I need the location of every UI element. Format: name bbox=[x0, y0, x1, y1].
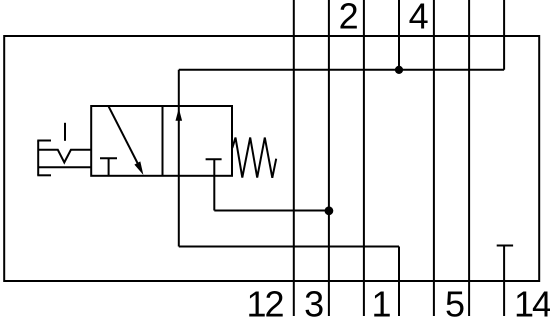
flow arrow head (up, right box) bbox=[176, 108, 183, 121]
plunger stem bbox=[64, 123, 66, 141]
svg-text:14: 14 bbox=[514, 283, 550, 318]
node A junction dot bbox=[395, 66, 403, 74]
port 14 tap stem (x=504) bbox=[503, 246, 505, 317]
valve V1 (3/2-way) bbox=[91, 106, 276, 178]
wire port drop (x=214 to y=210.5) bbox=[213, 159, 215, 210]
wire line 1 lower segment (x=399) bbox=[398, 247, 400, 317]
wire line 5 (x=469 full height) bbox=[468, 0, 470, 316]
blocked port T (left box) bbox=[100, 157, 117, 159]
svg-text:4: 4 bbox=[409, 0, 429, 37]
node B junction dot bbox=[325, 206, 334, 215]
svg-text:12: 12 bbox=[246, 283, 283, 318]
wire (x=434 full height) bbox=[433, 0, 435, 316]
wire top segment above node A (x=399) bbox=[398, 0, 400, 70]
bracket bbox=[37, 140, 51, 142]
svg-text:1: 1 bbox=[371, 283, 391, 318]
valve body boxes bbox=[91, 106, 232, 176]
svg-text:5: 5 bbox=[445, 283, 465, 318]
enclosure box bbox=[4, 36, 539, 281]
wire pilot bus (y=69.8) bbox=[179, 69, 504, 71]
svg-text:3: 3 bbox=[304, 283, 324, 318]
diagonal arrow head bbox=[134, 161, 143, 175]
blocked port T (right box) bbox=[206, 158, 222, 160]
wire line 3 (x=328.5 full height) bbox=[328, 0, 330, 316]
wire top segment (x=504) bbox=[503, 0, 505, 70]
wire (x=364 full height) bbox=[363, 0, 365, 316]
wire line 12 (x=293.5 full height) bbox=[293, 0, 295, 316]
body bottom bbox=[38, 166, 91, 168]
svg-text:2: 2 bbox=[339, 0, 359, 37]
wire (y=246.5 horizontal to line 1) bbox=[179, 246, 399, 248]
actuator (manual override, push with detent) bbox=[37, 123, 91, 176]
flow path diagonal (left box) bbox=[109, 106, 139, 165]
wire valve pilot drop (x=179 through valve) bbox=[178, 70, 180, 247]
body top with detent notch bbox=[38, 150, 91, 163]
valve position divider bbox=[162, 106, 164, 176]
port 14 tap T cap bbox=[497, 245, 513, 247]
spring return bbox=[232, 138, 276, 178]
wire (y=210.5 horizontal to line 3) bbox=[214, 210, 329, 212]
